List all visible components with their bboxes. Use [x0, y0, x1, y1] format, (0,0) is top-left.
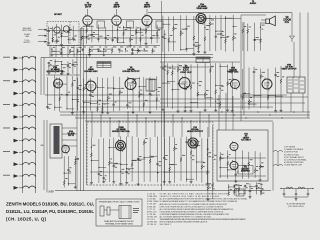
resistor R67b [101, 107, 103, 112]
wire [168, 17, 170, 52]
wire [185, 16, 187, 52]
junction [35, 69, 36, 70]
ground [88, 54, 91, 57]
value label [277, 71, 280, 74]
wire [99, 167, 106, 169]
svg-text:VERT OUTPUT: VERT OUTPUT [281, 69, 297, 71]
wire [161, 1, 163, 190]
junction [180, 31, 181, 32]
wire [190, 64, 192, 109]
capacitor C36 [162, 36, 165, 37]
part number label [139, 159, 141, 162]
vert output transformer T5 [287, 77, 305, 93]
wire [77, 78, 79, 111]
wire [61, 35, 68, 37]
resistor R38 [172, 27, 174, 32]
wire [197, 64, 199, 109]
junction [205, 97, 206, 98]
speaker LS1 [261, 16, 275, 26]
value label [91, 91, 93, 94]
wire [160, 61, 240, 63]
wire [275, 68, 277, 110]
wire [232, 96, 234, 130]
junction [123, 27, 124, 28]
capacitor C69 [112, 104, 115, 105]
value label [134, 78, 136, 81]
wire [160, 66, 213, 68]
capacitor C101 [98, 173, 101, 174]
wire [201, 138, 203, 182]
wire [118, 41, 125, 43]
wire heater bus [60, 111, 310, 113]
capacitor C46 [220, 34, 223, 35]
wire [205, 18, 212, 20]
part number label [165, 158, 167, 161]
wire [254, 95, 262, 97]
junction [98, 51, 99, 52]
value label [153, 46, 156, 49]
wire [260, 23, 262, 51]
capacitor C26 [118, 49, 121, 50]
junction [193, 45, 194, 46]
value label [139, 155, 141, 158]
wire [198, 94, 205, 96]
value label [74, 35, 77, 38]
part number label [100, 174, 102, 177]
wire [283, 195, 285, 198]
wire [108, 139, 110, 182]
junction [35, 164, 36, 165]
value label [98, 99, 101, 102]
wire [57, 32, 64, 34]
wire [81, 27, 83, 45]
wire [67, 108, 74, 110]
coil L11 [23, 174, 36, 176]
resistor R122b [227, 161, 229, 166]
ground [102, 53, 105, 56]
ground [106, 111, 109, 114]
value label [122, 168, 124, 171]
ground [204, 109, 207, 112]
ground [131, 52, 134, 55]
resistor R97 [63, 181, 65, 186]
terminal label [3, 103, 10, 106]
wire [83, 79, 85, 111]
junction [136, 29, 137, 30]
part number label [229, 82, 231, 85]
wire [220, 15, 222, 50]
part number label [74, 39, 76, 42]
resistor R78 [167, 70, 169, 75]
wire [173, 138, 175, 183]
junction [207, 154, 208, 155]
junction [144, 48, 145, 49]
part number label [131, 38, 133, 41]
ground [176, 110, 179, 113]
tube V3A [196, 12, 206, 25]
resistor R96 [280, 79, 282, 84]
phono jack J1 [100, 206, 104, 216]
wire [19, 175, 23, 177]
value label [140, 89, 142, 92]
part number label [175, 147, 177, 150]
part number label [134, 82, 137, 85]
capacitor C21 [81, 49, 84, 50]
capacitor C6 [72, 38, 75, 39]
svg-text:INPUT VHF: INPUT VHF [22, 30, 32, 32]
junction [48, 65, 49, 66]
capacitor C134 [249, 191, 252, 192]
wire [45, 94, 160, 96]
svg-text:3RD IF: 3RD IF [144, 6, 151, 8]
junction [136, 114, 137, 115]
wire [59, 77, 61, 111]
wire [136, 115, 138, 137]
part number label [234, 37, 236, 40]
wire [138, 50, 146, 52]
junction [35, 81, 36, 82]
junction [89, 49, 90, 50]
wire [178, 83, 185, 85]
wire [126, 137, 128, 182]
wire [158, 172, 160, 174]
part number label [214, 158, 216, 161]
value label [182, 154, 185, 157]
ground [144, 42, 147, 45]
wire [209, 15, 211, 51]
antenna terminal 5 [14, 103, 19, 107]
junction [193, 44, 194, 45]
resistor R42b [198, 45, 200, 50]
value label [141, 34, 143, 37]
wire [227, 64, 229, 108]
wire [86, 55, 88, 185]
ground [189, 110, 192, 113]
wire [156, 25, 158, 43]
wire [243, 22, 245, 115]
capacitor C65 [89, 95, 92, 96]
wire [163, 138, 165, 181]
wire [254, 151, 256, 178]
wire [19, 104, 23, 106]
junction [212, 157, 213, 158]
value label [128, 168, 131, 171]
junction [180, 49, 181, 50]
deflection yoke plug [273, 151, 283, 167]
wire [163, 112, 165, 137]
ground [60, 43, 63, 46]
junction [254, 39, 255, 40]
wire [132, 78, 134, 111]
value label [69, 166, 71, 169]
wire [240, 94, 287, 96]
wire [184, 64, 186, 109]
wire [181, 49, 188, 51]
wire [63, 156, 65, 188]
wire [64, 172, 71, 174]
resistor R115 [180, 157, 182, 162]
junction [256, 188, 257, 189]
wire [53, 40, 60, 42]
wire [229, 186, 236, 188]
wire [80, 106, 160, 108]
wire [104, 48, 112, 50]
resistor R86b [215, 90, 217, 95]
wire [221, 37, 228, 39]
junction [86, 26, 87, 27]
junction [186, 179, 187, 180]
wire [307, 13, 309, 43]
capacitor C11 [105, 38, 108, 39]
value label [73, 79, 75, 82]
wire [92, 19, 112, 21]
svg-text:13 C80 .02: 13 C80 .02 [147, 224, 156, 226]
svg-text:HORIZ OUTPUT: HORIZ OUTPUT [187, 131, 204, 133]
junction [68, 39, 69, 40]
wire [38, 29, 47, 31]
capacitor C71 [126, 105, 129, 106]
value label [133, 159, 136, 162]
wire [51, 47, 53, 53]
junction [22, 152, 23, 153]
wire [133, 78, 140, 80]
capacitor C133 [244, 186, 247, 187]
part number label [50, 63, 52, 66]
wire [87, 26, 94, 28]
capacitor C95 [274, 75, 277, 76]
wire [72, 59, 74, 74]
junction [215, 85, 216, 86]
wire [143, 77, 145, 111]
capacitor C9 [91, 34, 94, 35]
capacitor C62 [67, 66, 70, 67]
junction [225, 18, 226, 19]
wire [170, 164, 177, 166]
ground [66, 72, 69, 75]
value label [71, 46, 74, 49]
wire [91, 112, 93, 137]
resistor R93 [260, 74, 262, 79]
part number label [91, 95, 94, 98]
coil L4 [23, 92, 36, 94]
junction [275, 96, 276, 97]
junction [103, 49, 104, 50]
wire [180, 15, 182, 50]
junction [163, 111, 164, 112]
resistor R131b [233, 189, 235, 194]
wire [209, 63, 211, 107]
wire [167, 63, 169, 107]
wire boost bus [85, 120, 273, 122]
junction [28, 57, 29, 58]
junction [199, 111, 200, 112]
label V3B [47, 67, 64, 73]
wire [113, 138, 115, 181]
ground [231, 110, 234, 113]
wire [82, 100, 160, 102]
capacitor C10 [97, 38, 100, 39]
junction [220, 37, 221, 38]
wire [73, 46, 75, 58]
junction [132, 78, 133, 79]
tube V1B mixer [63, 26, 69, 32]
wire [91, 103, 98, 105]
resistor R41b [193, 36, 195, 41]
capacitor C98 [67, 170, 70, 171]
label V11 [241, 166, 250, 172]
junction [61, 64, 62, 65]
capacitor C23 [97, 49, 100, 50]
resistor R88 [227, 81, 229, 86]
value label [100, 170, 102, 173]
wire [234, 185, 241, 187]
coil L2 [23, 68, 36, 70]
part number label [211, 23, 214, 26]
resistor R117b [190, 151, 192, 156]
IF transformer T2 [127, 21, 134, 28]
value label [99, 35, 102, 38]
wire [144, 157, 151, 159]
wire [220, 167, 228, 169]
wire [49, 65, 57, 67]
ground [294, 198, 297, 201]
wire [123, 26, 125, 43]
value label [91, 46, 94, 49]
junction [145, 117, 146, 118]
wire [185, 106, 192, 108]
resistor R127 [259, 165, 261, 170]
junction [28, 175, 29, 176]
junction [261, 184, 262, 185]
antenna terminal 4 [14, 92, 19, 96]
resistor R128 [207, 186, 209, 191]
terminal label [3, 174, 10, 177]
value label [187, 25, 190, 28]
ground [71, 112, 74, 115]
wire [82, 49, 84, 52]
value label [110, 158, 112, 161]
label V2 [113, 2, 120, 8]
resistor R90 [107, 207, 110, 215]
value label [145, 137, 148, 140]
part number label [107, 38, 109, 41]
junction [197, 94, 198, 95]
wire [227, 150, 229, 178]
wire [48, 62, 50, 72]
voltage chart box [97, 62, 111, 68]
wire [139, 86, 146, 88]
part number label [208, 155, 211, 158]
parts list [147, 194, 159, 227]
filter choke detail [281, 187, 313, 189]
label V5A [228, 66, 239, 73]
junction [59, 84, 60, 85]
junction [72, 64, 73, 65]
wire [219, 175, 266, 177]
ground [163, 180, 166, 183]
wire [204, 63, 206, 109]
junction [28, 187, 29, 188]
label V10 [187, 127, 204, 133]
value label [128, 102, 131, 105]
junction [22, 105, 23, 106]
wire [196, 139, 198, 181]
wire [54, 59, 56, 74]
antenna terminal 2 [14, 68, 19, 72]
junction [28, 69, 29, 70]
wire [215, 16, 217, 52]
antenna terminal 10 [14, 162, 19, 166]
junction [149, 79, 150, 80]
wire [150, 79, 157, 81]
wire [163, 23, 170, 25]
resistor R4 [60, 33, 62, 38]
junction [234, 186, 235, 187]
junction [109, 147, 110, 148]
ground [190, 180, 193, 183]
svg-text:5) CONTROLS NORMAL: 5) CONTROLS NORMAL [284, 159, 307, 162]
part number label [48, 107, 50, 110]
wire [138, 77, 140, 111]
wire [280, 66, 282, 109]
part number label [71, 50, 74, 53]
wire [150, 24, 152, 44]
wire [154, 121, 156, 137]
wire [19, 140, 23, 142]
ground [192, 53, 195, 56]
ground [226, 109, 229, 112]
wire [268, 95, 276, 97]
CRT anode cap [290, 36, 295, 42]
wire [198, 17, 200, 50]
capacitor C72 [132, 82, 135, 83]
value label [137, 27, 139, 30]
wire sound bus [41, 57, 160, 59]
wire [69, 183, 76, 185]
wire [19, 151, 23, 153]
wire [103, 138, 105, 180]
wire [46, 74, 80, 76]
wire [239, 193, 246, 195]
junction [97, 87, 98, 88]
junction [212, 188, 213, 189]
wire [149, 137, 151, 181]
capacitor C104 [113, 165, 116, 166]
value label [179, 64, 182, 67]
value label [120, 46, 123, 49]
value label [74, 61, 77, 64]
junction [120, 164, 121, 165]
antenna terminal 7 [14, 127, 19, 131]
part number label [258, 186, 260, 189]
wire [62, 145, 77, 147]
tube V10 [188, 137, 198, 150]
tube V12 [230, 141, 238, 152]
ground [137, 183, 140, 186]
capacitor C40 [185, 28, 188, 29]
svg-text:P.O.: P.O. [285, 21, 290, 24]
value label [113, 46, 116, 49]
wire [141, 28, 148, 30]
junction [28, 116, 29, 117]
value label [68, 91, 70, 94]
value label [211, 19, 214, 22]
wire [54, 75, 56, 110]
wire [206, 139, 208, 183]
capacitor C12 [111, 40, 114, 41]
value label [76, 157, 79, 160]
wire [121, 19, 142, 21]
